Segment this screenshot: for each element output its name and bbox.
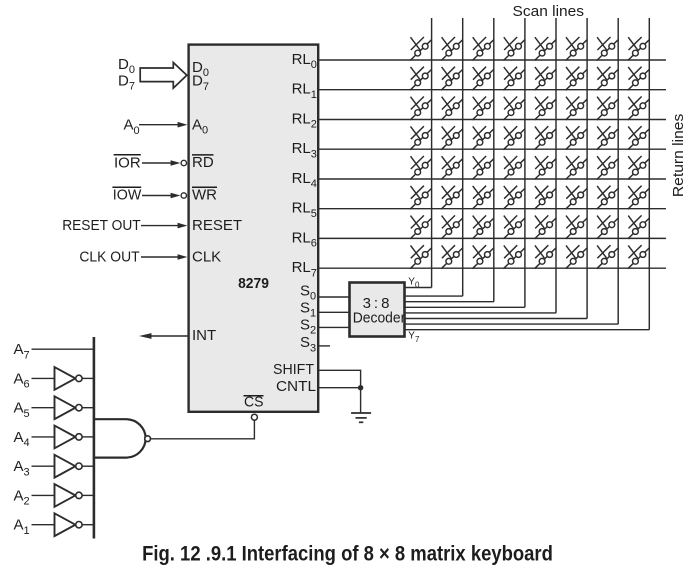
inverter (NOT gate) on A6 bbox=[55, 367, 76, 390]
ground symbol bbox=[351, 413, 371, 422]
wire inverter A1 output to NAND bar bbox=[82, 524, 94, 526]
wire inverter A4 output to NAND bar bbox=[82, 436, 94, 438]
wire A0 to 8279 with arrowhead bbox=[139, 124, 179, 126]
key switch row 4 col 1 bbox=[410, 126, 432, 150]
inverter (NOT gate) on A2 bbox=[55, 484, 76, 507]
wire scan line column 7 (vertical) bbox=[617, 18, 619, 324]
key switch row 6 col 2 bbox=[441, 186, 463, 210]
wire A7 direct to NAND bar bbox=[32, 348, 94, 350]
svg-text:CLK OUT: CLK OUT bbox=[79, 249, 139, 266]
key switch row 4 col 3 bbox=[472, 126, 494, 150]
key switch row 1 col 7 bbox=[597, 37, 619, 61]
key switch row 6 col 7 bbox=[597, 186, 619, 210]
svg-text:CLK: CLK bbox=[192, 249, 221, 266]
wire CNTL pin bbox=[318, 387, 361, 389]
svg-text:A2: A2 bbox=[14, 487, 30, 507]
NAND input bar (vertical) bbox=[93, 337, 96, 539]
wire S3 stub bbox=[318, 345, 330, 347]
wire scan line column 1 (vertical) bbox=[431, 18, 433, 288]
key switch row 4 col 4 bbox=[503, 126, 525, 150]
pin label RD (active low, overline) bbox=[192, 154, 214, 156]
wire IOW to WR with arrowhead and bubble bbox=[142, 195, 172, 197]
key switch row 6 col 6 bbox=[566, 186, 588, 210]
key switch row 7 col 4 bbox=[503, 215, 525, 239]
wire scan line column 5 (vertical) bbox=[555, 18, 557, 313]
svg-text:RESET: RESET bbox=[192, 217, 242, 234]
key switch row 7 col 7 bbox=[597, 215, 619, 239]
wire A6 to inverter bbox=[32, 377, 55, 379]
wire A5 to inverter bbox=[32, 407, 55, 409]
wire decoder output Y5 to scan column 6 bbox=[405, 318, 587, 320]
pin label WR (active low, overline) bbox=[192, 186, 217, 188]
key switch row 8 col 1 bbox=[410, 245, 432, 269]
svg-text:CNTL: CNTL bbox=[276, 378, 316, 395]
svg-text:A1: A1 bbox=[14, 517, 30, 537]
wire A4 to inverter bbox=[32, 436, 55, 438]
key switch row 1 col 2 bbox=[441, 37, 463, 61]
svg-text:SHIFT: SHIFT bbox=[273, 361, 314, 378]
key switch row 7 col 2 bbox=[441, 215, 463, 239]
inverter (NOT gate) on A3 bbox=[55, 455, 76, 478]
key switch row 1 col 6 bbox=[566, 37, 588, 61]
key switch row 8 col 2 bbox=[441, 245, 463, 269]
wire SHIFT pin bbox=[318, 370, 361, 387]
wire IOR to RD with arrowhead and bubble bbox=[142, 162, 172, 164]
svg-text:Return lines: Return lines bbox=[670, 114, 687, 197]
key switch row 2 col 6 bbox=[566, 67, 588, 91]
wire decoder output Y1 to scan column 2 bbox=[405, 295, 463, 297]
svg-text:RESET OUT: RESET OUT bbox=[62, 217, 141, 234]
svg-text:Decoder: Decoder bbox=[353, 310, 406, 327]
key switch row 2 col 7 bbox=[597, 67, 619, 91]
key switch row 2 col 5 bbox=[535, 67, 557, 91]
key switch row 1 col 3 bbox=[472, 37, 494, 61]
wire decoder output Y4 to scan column 5 bbox=[405, 312, 556, 314]
key switch row 3 col 2 bbox=[441, 97, 463, 121]
key switch row 3 col 7 bbox=[597, 97, 619, 121]
key switch row 8 col 4 bbox=[503, 245, 525, 269]
key switch row 3 col 5 bbox=[535, 97, 557, 121]
wire INT output with left arrowhead bbox=[147, 335, 189, 337]
wire CLK OUT to CLK with arrowhead bbox=[141, 256, 179, 258]
svg-text:A4: A4 bbox=[14, 429, 30, 449]
key switch row 4 col 8 bbox=[628, 126, 650, 150]
wire inverter A3 output to NAND bar bbox=[82, 465, 94, 467]
key switch row 4 col 5 bbox=[535, 126, 557, 150]
key switch row 3 col 3 bbox=[472, 97, 494, 121]
wire scan line column 4 (vertical) bbox=[524, 18, 526, 307]
svg-text:Fig. 12 .9.1 Interfacing of 8: Fig. 12 .9.1 Interfacing of 8 × 8 matrix… bbox=[142, 542, 553, 565]
key switch row 1 col 4 bbox=[503, 37, 525, 61]
key switch row 4 col 7 bbox=[597, 126, 619, 150]
wire return line RL1 (horizontal) bbox=[318, 89, 666, 91]
key switch row 4 col 6 bbox=[566, 126, 588, 150]
wire inverter A2 output to NAND bar bbox=[82, 494, 94, 496]
bubble on CS pin (active low) bbox=[251, 414, 257, 420]
junction dot SHIFT/CNTL bbox=[358, 385, 363, 390]
inverter (NOT gate) on A4 bbox=[55, 426, 76, 449]
key switch row 7 col 6 bbox=[566, 215, 588, 239]
wire return line RL5 (horizontal) bbox=[318, 208, 666, 210]
key switch row 7 col 5 bbox=[535, 215, 557, 239]
svg-text:A0: A0 bbox=[124, 117, 140, 137]
wire return line RL0 (horizontal) bbox=[318, 59, 666, 61]
key switch row 6 col 8 bbox=[628, 186, 650, 210]
wire A2 to inverter bbox=[32, 494, 55, 496]
key switch row 5 col 1 bbox=[410, 156, 432, 180]
svg-text:CS: CS bbox=[244, 393, 264, 410]
key switch row 5 col 2 bbox=[441, 156, 463, 180]
key switch row 3 col 4 bbox=[503, 97, 525, 121]
key switch row 8 col 3 bbox=[472, 245, 494, 269]
key switch row 8 col 6 bbox=[566, 245, 588, 269]
3:8 decoder U2 (body) bbox=[350, 283, 405, 337]
key switch row 2 col 1 bbox=[410, 67, 432, 91]
wire A1 to inverter bbox=[32, 524, 55, 526]
IC 8279 keyboard/display controller U1 (body) bbox=[189, 45, 319, 412]
NAND gate G1 (body) bbox=[94, 419, 146, 457]
wire return line RL6 (horizontal) bbox=[318, 237, 666, 239]
key switch row 5 col 5 bbox=[535, 156, 557, 180]
svg-text:A5: A5 bbox=[14, 400, 30, 420]
label IOR (overline) bbox=[114, 154, 141, 156]
bubble on NAND output bbox=[145, 436, 151, 442]
key switch row 3 col 6 bbox=[566, 97, 588, 121]
wire return line RL4 (horizontal) bbox=[318, 178, 666, 180]
svg-text:Y7: Y7 bbox=[408, 330, 420, 343]
pin label CS (active low, overline) bbox=[244, 395, 264, 397]
key switch row 6 col 1 bbox=[410, 186, 432, 210]
key switch row 7 col 3 bbox=[472, 215, 494, 239]
wire return line RL2 (horizontal) bbox=[318, 119, 666, 121]
key switch row 2 col 4 bbox=[503, 67, 525, 91]
wire decoder output Y6 to scan column 7 bbox=[405, 323, 618, 325]
key switch row 6 col 4 bbox=[503, 186, 525, 210]
svg-text:WR: WR bbox=[192, 187, 217, 204]
wire NAND output to CS bbox=[151, 420, 255, 439]
key switch row 5 col 8 bbox=[628, 156, 650, 180]
key switch row 5 col 7 bbox=[597, 156, 619, 180]
wire S1 to decoder bbox=[318, 311, 349, 313]
key switch row 1 col 5 bbox=[535, 37, 557, 61]
key switch row 2 col 8 bbox=[628, 67, 650, 91]
svg-text:IOW: IOW bbox=[113, 187, 142, 204]
svg-text:A3: A3 bbox=[14, 458, 30, 478]
key switch row 7 col 1 bbox=[410, 215, 432, 239]
wire decoder output Y2 to scan column 3 bbox=[405, 301, 494, 303]
wire decoder output Y7 to scan column 8 bbox=[405, 329, 649, 331]
svg-text:INT: INT bbox=[192, 327, 216, 344]
key switch row 3 col 8 bbox=[628, 97, 650, 121]
key switch row 8 col 7 bbox=[597, 245, 619, 269]
wire inverter A6 output to NAND bar bbox=[82, 377, 94, 379]
wire decoder output Y3 to scan column 4 bbox=[405, 306, 525, 308]
key switch row 2 col 3 bbox=[472, 67, 494, 91]
key switch row 1 col 8 bbox=[628, 37, 650, 61]
wire return line RL7 (horizontal) bbox=[318, 267, 666, 269]
svg-text:8279: 8279 bbox=[238, 275, 269, 292]
key switch row 4 col 2 bbox=[441, 126, 463, 150]
data bus block arrow D0-D7 into 8279 bbox=[140, 63, 187, 89]
key switch row 6 col 3 bbox=[472, 186, 494, 210]
key switch row 5 col 6 bbox=[566, 156, 588, 180]
wire decoder output Y0 to scan column 1 bbox=[405, 287, 432, 289]
key switch row 6 col 5 bbox=[535, 186, 557, 210]
inverter (NOT gate) on A1 bbox=[55, 513, 76, 536]
svg-text:A6: A6 bbox=[14, 370, 30, 390]
key switch row 5 col 3 bbox=[472, 156, 494, 180]
key switch row 7 col 8 bbox=[628, 215, 650, 239]
wire return line RL3 (horizontal) bbox=[318, 148, 666, 150]
key switch row 8 col 8 bbox=[628, 245, 650, 269]
wire scan line column 6 (vertical) bbox=[586, 18, 588, 319]
wire S2 to decoder bbox=[318, 326, 349, 328]
label IOW (overline) bbox=[112, 186, 141, 188]
inverter (NOT gate) on A5 bbox=[55, 396, 76, 419]
key switch row 8 col 5 bbox=[535, 245, 557, 269]
wire scan line column 3 (vertical) bbox=[493, 18, 495, 302]
key switch row 2 col 2 bbox=[441, 67, 463, 91]
svg-text:IOR: IOR bbox=[114, 154, 141, 171]
wire inverter A5 output to NAND bar bbox=[82, 407, 94, 409]
wire A3 to inverter bbox=[32, 465, 55, 467]
wire RESET OUT to RESET with arrowhead bbox=[141, 225, 179, 227]
wire scan line column 8 (vertical) bbox=[648, 18, 650, 330]
wire to ground bbox=[360, 388, 362, 413]
key switch row 3 col 1 bbox=[410, 97, 432, 121]
key switch row 5 col 4 bbox=[503, 156, 525, 180]
svg-text:Scan lines: Scan lines bbox=[513, 3, 585, 20]
svg-text:A7: A7 bbox=[14, 341, 30, 361]
svg-text:RD: RD bbox=[192, 154, 214, 171]
wire S0 to decoder bbox=[318, 296, 349, 298]
wire scan line column 2 (vertical) bbox=[462, 18, 464, 296]
key switch row 1 col 1 bbox=[410, 37, 432, 61]
